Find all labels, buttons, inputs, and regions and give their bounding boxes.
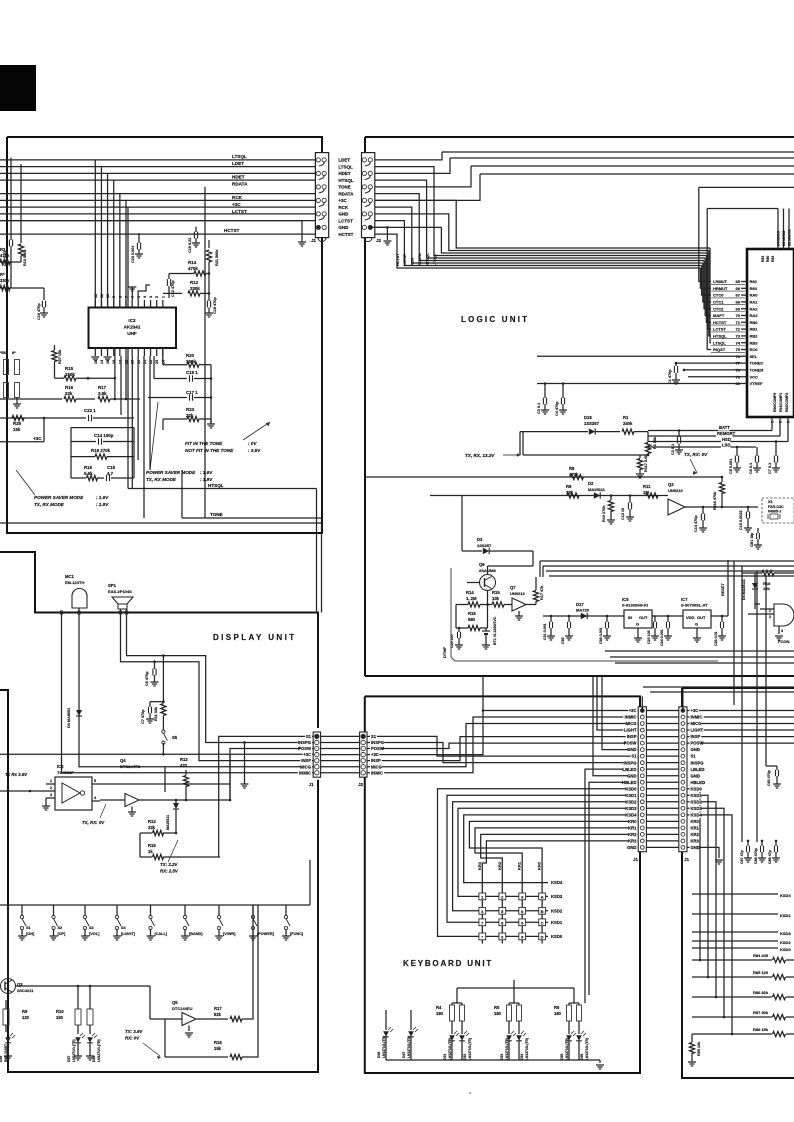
svg-text:DTC144TU: DTC144TU <box>120 764 140 769</box>
svg-text:GND: GND <box>338 212 349 217</box>
capacitor C21 0.001 <box>550 616 552 622</box>
svg-text:73: 73 <box>736 334 741 339</box>
svg-text:64 MICG: 64 MICG <box>777 231 781 246</box>
leader line note inner <box>150 402 158 470</box>
svg-text:INSP: INSP <box>627 734 637 739</box>
wire J2-MICG to J1 <box>367 724 638 767</box>
svg-text:GND: GND <box>627 773 636 778</box>
svg-text:LOGIC UNIT: LOGIC UNIT <box>461 315 529 324</box>
svg-text:GND: GND <box>691 845 700 850</box>
wire HTSQL run <box>127 207 129 488</box>
svg-text:7: 7 <box>125 296 129 298</box>
svg-text:3.9k: 3.9k <box>98 391 107 396</box>
svg-text:LTSQL: LTSQL <box>713 340 726 345</box>
svg-text:RB1: RB1 <box>750 327 759 332</box>
wire S5 to +3C row <box>162 743 164 754</box>
keyboard unit border box <box>365 696 640 1073</box>
ground LED rail <box>599 1060 601 1063</box>
svg-text:1: 1 <box>50 779 52 783</box>
svg-text:KR1: KR1 <box>628 825 637 830</box>
svg-text:KSD1: KSD1 <box>780 913 791 918</box>
svg-text:*56k: *56k <box>0 351 9 355</box>
svg-text:180: 180 <box>436 1011 444 1016</box>
resistor network boxes left <box>4 360 9 375</box>
svg-text:2SC4211: 2SC4211 <box>17 988 34 993</box>
svg-text:R83: R83 <box>771 256 775 262</box>
wire MICG texture stub <box>164 767 166 792</box>
svg-text:15k: 15k <box>214 1046 222 1051</box>
horizontal signal wires entering from left edge <box>0 159 315 161</box>
svg-text:RB2: RB2 <box>750 334 759 339</box>
wire bundle J2 to CPU <box>375 234 701 268</box>
wire +3C row long <box>0 753 313 755</box>
capacitor C5 0.001 <box>736 447 738 456</box>
svg-text:R11 33k: R11 33k <box>154 706 158 721</box>
wire +3C pin stub right <box>682 688 684 711</box>
svg-text:5.6k: 5.6k <box>84 471 93 476</box>
capacitor C92 <box>568 616 570 622</box>
svg-text:HBLED: HBLED <box>691 780 705 785</box>
IC2 bottom pin numbers <box>94 348 96 356</box>
capacitor C26 0.01 <box>721 616 723 622</box>
svg-text:S5: S5 <box>172 735 178 740</box>
svg-text:LIGHT: LIGHT <box>624 728 637 733</box>
svg-text:R19: R19 <box>84 465 93 470</box>
svg-text:LIGHT: LIGHT <box>691 728 704 733</box>
svg-text:330k: 330k <box>190 286 200 291</box>
svg-text:1: 1 <box>161 296 165 298</box>
svg-text:LTSQL: LTSQL <box>232 154 247 159</box>
capacitor C93 470p right <box>776 766 778 770</box>
svg-text:RB0: RB0 <box>750 320 759 325</box>
svg-text:+3C: +3C <box>33 436 42 441</box>
capacitor C7 470p display <box>150 701 163 703</box>
svg-text:C89 47p: C89 47p <box>768 849 772 864</box>
wire inner bus corner <box>699 186 794 188</box>
svg-text:RB3: RB3 <box>750 340 759 345</box>
svg-text:17: 17 <box>118 360 122 364</box>
svg-text:TONER: TONER <box>750 368 764 373</box>
svg-text:20: 20 <box>137 360 141 364</box>
capacitors C87 C88 C89 <box>747 841 749 846</box>
svg-text:70: 70 <box>736 313 741 318</box>
wire regulator row <box>543 615 683 617</box>
svg-text:KSD0: KSD0 <box>625 786 637 791</box>
svg-text:+3C: +3C <box>232 202 241 207</box>
wire R8 row <box>365 476 722 478</box>
svg-text:[V/WR]: [V/WR] <box>223 932 236 936</box>
svg-text:LDET: LDET <box>232 161 244 166</box>
svg-text:LN1371G-(TR): LN1371G-(TR) <box>407 1036 411 1058</box>
svg-text:D53: D53 <box>500 1054 504 1060</box>
wire GND2 feed <box>593 676 638 776</box>
svg-text:RCK: RCK <box>411 258 415 266</box>
svg-text:11: 11 <box>100 294 104 298</box>
svg-text:HTSQL: HTSQL <box>425 252 429 266</box>
svg-text:S2: S2 <box>58 926 63 930</box>
resistor R10 270k <box>610 496 612 501</box>
wire TONER row <box>684 369 747 371</box>
wire 13.2V row <box>523 454 648 456</box>
wire BATT <box>648 430 772 432</box>
black registration block top-left <box>0 65 36 111</box>
svg-text:SP1: SP1 <box>108 583 117 588</box>
capacitor C11 0.22 <box>10 158 12 240</box>
svg-text:INSP: INSP <box>371 758 381 763</box>
resistor R2 56k <box>647 432 649 442</box>
svg-text:KR3: KR3 <box>628 839 637 844</box>
key switch 0 <box>499 933 506 940</box>
capacitor C20 100 <box>458 628 460 632</box>
wire mid long lines to right units <box>540 560 794 562</box>
svg-text:C4 470p: C4 470p <box>555 401 559 416</box>
ground under CB1 <box>754 544 762 546</box>
LED D53 <box>508 1021 510 1034</box>
resistor R11 33k display <box>161 704 166 716</box>
svg-text:470k: 470k <box>0 253 10 258</box>
display unit border box <box>0 552 318 728</box>
svg-text:: 1.8V: : 1.8V <box>200 477 213 482</box>
LED D51 <box>451 1021 453 1034</box>
svg-text:: 0V: : 0V <box>248 441 257 446</box>
svg-text:: 3.5V: : 3.5V <box>248 448 261 453</box>
key switch 6 <box>519 907 526 914</box>
svg-text:TX, RX: 0V: TX, RX: 0V <box>684 452 708 457</box>
svg-text:R9: R9 <box>566 484 572 489</box>
svg-text:1: 1 <box>769 609 771 613</box>
wire LED feeds <box>456 988 458 995</box>
capacitor C10 470p <box>43 288 45 300</box>
svg-text:TONE: TONE <box>210 512 223 517</box>
capacitor C4 470p <box>562 384 564 399</box>
svg-text:MA25111: MA25111 <box>588 487 606 492</box>
dot artifact <box>469 1092 471 1094</box>
svg-text:G: G <box>695 622 698 627</box>
svg-text:INMIC: INMIC <box>299 770 311 775</box>
svg-text:UHF: UHF <box>127 331 137 336</box>
svg-text:INSPG: INSPG <box>623 760 636 765</box>
key switch 4 <box>479 907 486 914</box>
svg-text:R12: R12 <box>180 757 188 762</box>
svg-text:J1: J1 <box>309 782 315 787</box>
wire pin16 junction <box>114 348 116 399</box>
svg-text:+3C: +3C <box>371 752 379 757</box>
svg-text:LN1371G-(TR): LN1371G-(TR) <box>565 1038 569 1060</box>
svg-text:S3: S3 <box>89 926 94 930</box>
wire GND riser <box>602 676 638 750</box>
svg-text:R16: R16 <box>65 385 74 390</box>
wire right chain vertical <box>210 365 212 424</box>
svg-text:Q5: Q5 <box>172 1000 178 1005</box>
wire J2-INSP to J1 <box>367 737 638 761</box>
wire R9 row <box>430 495 668 497</box>
wire Q3 collector drop <box>149 986 151 1019</box>
svg-text:D17: D17 <box>576 602 584 607</box>
svg-text:C15 0.0022: C15 0.0022 <box>739 510 743 530</box>
ground under D56 <box>4 1055 12 1057</box>
wire IC7 out <box>711 615 728 617</box>
svg-text:9: 9 <box>112 296 116 298</box>
svg-text:[ON]: [ON] <box>26 932 35 936</box>
ground under C93 <box>603 635 611 637</box>
svg-text:S1: S1 <box>631 754 637 759</box>
svg-text:R86 82k: R86 82k <box>753 990 769 995</box>
capacitor C6 0.1 <box>756 447 758 456</box>
AND gate FCON <box>774 604 794 626</box>
wire INSPG ground stub <box>243 741 246 744</box>
capacitor C15 0.0022 <box>747 507 749 512</box>
svg-text:R13: R13 <box>148 819 156 824</box>
svg-text:LCTST: LCTST <box>338 218 353 223</box>
svg-text:FCON: FCON <box>778 639 789 644</box>
svg-text:KSD3: KSD3 <box>780 931 791 936</box>
ground under C7 display <box>146 718 154 720</box>
svg-text:X1: X1 <box>768 500 773 504</box>
svg-text:62 MAOS: 62 MAOS <box>788 229 792 246</box>
svg-text:S1: S1 <box>306 734 312 739</box>
CPU top pins 62-64 <box>777 209 779 250</box>
svg-text:D4 MA25111: D4 MA25111 <box>742 579 746 600</box>
svg-text:LTSQL: LTSQL <box>433 253 437 266</box>
svg-text:KSD1: KSD1 <box>691 793 703 798</box>
svg-text:INSPG: INSPG <box>371 740 384 745</box>
svg-text:S1: S1 <box>26 926 31 930</box>
svg-text:R14: R14 <box>188 260 197 265</box>
svg-text:J1: J1 <box>684 857 690 862</box>
key switch # <box>519 933 526 940</box>
ground under C13 <box>626 516 634 518</box>
svg-text:C92: C92 <box>561 637 565 644</box>
switch [FUNC] <box>285 905 287 916</box>
svg-text:R1: R1 <box>623 415 629 420</box>
svg-text:IC2: IC2 <box>128 318 136 323</box>
svg-text:IN: IN <box>628 615 632 620</box>
ground under D58 <box>86 1055 94 1057</box>
svg-text:74: 74 <box>736 340 741 345</box>
svg-text:1: 1 <box>771 421 775 423</box>
svg-text:KSD2: KSD2 <box>780 940 791 945</box>
svg-text:RCK: RCK <box>232 195 243 200</box>
svg-text:D55: D55 <box>560 1054 564 1060</box>
svg-text:KR3: KR3 <box>691 839 700 844</box>
svg-text:R8: R8 <box>569 466 575 471</box>
ground under chain <box>210 419 212 424</box>
svg-text:C22 1: C22 1 <box>84 408 96 413</box>
LED D56 <box>578 1021 580 1034</box>
svg-text:2: 2 <box>779 421 783 423</box>
svg-text:C88 470p: C88 470p <box>754 847 758 864</box>
svg-text:D54: D54 <box>520 1054 524 1060</box>
ground below J2 <box>372 227 387 240</box>
connector J1 display <box>313 732 320 777</box>
KSD labels <box>550 880 562 885</box>
svg-text:D3: D3 <box>477 537 483 542</box>
svg-text:1SS357: 1SS357 <box>477 543 492 548</box>
resistor R17 47k <box>535 584 537 590</box>
svg-text:180: 180 <box>494 1011 502 1016</box>
svg-text:580: 580 <box>468 617 476 622</box>
keyboard J1 labels overlay <box>628 708 637 713</box>
svg-text:C19 0.22: C19 0.22 <box>188 238 192 253</box>
svg-text:LN1371G-(TR): LN1371G-(TR) <box>505 1038 509 1060</box>
svg-text:R5: R5 <box>494 1005 500 1010</box>
connector J1 <box>315 153 328 238</box>
svg-text:C13 10: C13 10 <box>621 508 625 520</box>
svg-text:BATT: BATT <box>719 425 730 430</box>
ground under C20 <box>455 644 463 646</box>
svg-text:C21 0.001: C21 0.001 <box>543 623 547 640</box>
svg-text:HTSQL: HTSQL <box>338 178 354 183</box>
svg-text:LTSQL: LTSQL <box>338 164 353 169</box>
key switch 8 <box>499 919 506 926</box>
wire R14/R12 junction <box>208 274 210 302</box>
switch S4 <box>116 905 118 916</box>
ground under Q7 <box>518 611 520 616</box>
svg-text:2: 2 <box>50 786 52 790</box>
svg-text:C6 470p: C6 470p <box>145 671 149 686</box>
svg-text:KSD4: KSD4 <box>780 893 791 898</box>
svg-text:5: 5 <box>94 779 96 783</box>
svg-text:MA25111: MA25111 <box>166 815 170 830</box>
svg-text:MICG: MICG <box>626 721 637 726</box>
svg-text:POWER SAVER MODE: POWER SAVER MODE <box>146 470 196 475</box>
svg-text:12: 12 <box>94 294 98 298</box>
svg-text:D: D <box>541 934 544 939</box>
svg-text:HCTST: HCTST <box>224 228 240 233</box>
svg-text:OUT: OUT <box>697 615 706 620</box>
svg-text:2: 2 <box>155 296 159 298</box>
svg-text:R29: R29 <box>13 421 22 426</box>
svg-text:R16: R16 <box>214 1040 222 1045</box>
diode D4 MA25111 right <box>752 583 758 589</box>
wire J2-POSW to J1 <box>367 743 638 748</box>
jumper IC2 pin4-pin5 <box>138 285 150 300</box>
svg-text:04905-J: 04905-J <box>768 510 781 514</box>
switch [V/WR] <box>218 905 220 916</box>
svg-text:LCTST: LCTST <box>232 209 247 214</box>
wire LIGHT riser <box>597 676 638 730</box>
svg-text:R17: R17 <box>98 385 107 390</box>
wire IC2 input <box>0 790 46 792</box>
svg-text:BT1 VL1220/1VC: BT1 VL1220/1VC <box>493 616 497 645</box>
tone unit border box <box>7 137 322 533</box>
wire R13 junction <box>175 818 177 833</box>
wire right mid rows <box>692 893 778 895</box>
DTMF inner box <box>451 568 718 661</box>
wire VCC row <box>688 376 747 378</box>
ground under C18 <box>205 312 213 314</box>
svg-text:[CALL]: [CALL] <box>155 932 168 936</box>
svg-text:150: 150 <box>56 1015 64 1020</box>
svg-text:Q4: Q4 <box>120 758 126 763</box>
svg-text:R12: R12 <box>190 280 199 285</box>
svg-text:C12 470p: C12 470p <box>171 280 175 297</box>
svg-text:C5 0.001: C5 0.001 <box>729 459 733 474</box>
capacitor C93 0.001 <box>606 616 608 622</box>
svg-text:KR0: KR0 <box>537 861 542 870</box>
svg-text:R17: R17 <box>214 1006 222 1011</box>
svg-text:KR3: KR3 <box>477 861 482 870</box>
svg-text:IC5: IC5 <box>622 597 629 602</box>
ground under C14 logic <box>699 527 707 529</box>
svg-text:S-80730SL-AT: S-80730SL-AT <box>681 603 708 608</box>
svg-text:67: 67 <box>736 293 741 298</box>
svg-text:C15: C15 <box>107 465 116 470</box>
IC2 top pin numbers <box>94 300 96 308</box>
wire left components <box>0 261 21 263</box>
svg-text:EAS-2P104S: EAS-2P104S <box>108 589 132 594</box>
svg-text:TC4568F: TC4568F <box>57 770 74 775</box>
ground under C23 103 <box>651 635 659 637</box>
switch S1 <box>21 905 23 916</box>
ground under C92 <box>565 635 573 637</box>
svg-text:GND: GND <box>338 225 349 230</box>
svg-text:REMORT: REMORT <box>717 431 736 436</box>
svg-text:DTC144EU: DTC144EU <box>172 1006 193 1011</box>
capacitor C24 0.001 <box>667 616 669 622</box>
ground under C4 <box>559 409 567 411</box>
svg-text:J2: J2 <box>358 782 364 787</box>
svg-text:POSW: POSW <box>298 746 311 751</box>
svg-text:OUT: OUT <box>639 615 648 620</box>
svg-text:R11: R11 <box>643 484 651 489</box>
svg-text:23: 23 <box>155 360 159 364</box>
svg-text:D18: D18 <box>584 415 592 420</box>
wire SEL row <box>537 355 747 357</box>
display J1 labels <box>305 734 312 739</box>
svg-text:C17 1: C17 1 <box>186 390 198 395</box>
svg-text:+3C: +3C <box>338 198 347 203</box>
svg-text:10k: 10k <box>492 596 500 601</box>
svg-text:3: 3 <box>50 793 52 797</box>
LED D57 LN1371G-(TR) <box>75 1037 81 1043</box>
svg-text:MICG: MICG <box>371 764 382 769</box>
svg-text:C14 100p: C14 100p <box>94 433 114 438</box>
ground IC2 pin 13 <box>91 356 99 358</box>
svg-text:KR0: KR0 <box>628 819 637 824</box>
ground above IC2 pin 6 <box>131 292 133 300</box>
ground under C15 <box>744 527 752 529</box>
wire MICG bundle <box>79 613 313 767</box>
wire loop block <box>71 427 134 429</box>
wire staircase into CPU pins <box>699 187 711 281</box>
wire HTSQL drop to display <box>316 489 318 613</box>
svg-text:RC0: RC0 <box>750 347 759 352</box>
svg-text:VTREF: VTREF <box>750 381 764 386</box>
svg-text:CTC1: CTC1 <box>713 300 724 305</box>
svg-text:R80: R80 <box>766 256 770 262</box>
svg-text:G: G <box>636 622 639 627</box>
ground under C6 display <box>151 681 159 683</box>
svg-text:C2 0.1: C2 0.1 <box>671 444 675 455</box>
wire pin17-19 drops <box>120 356 122 415</box>
op-amp IC2 AK2341 UHF <box>89 308 177 349</box>
svg-text:D56: D56 <box>580 1054 584 1060</box>
capacitor C23 103 <box>654 616 656 622</box>
svg-text:HSD: HSD <box>722 437 731 442</box>
ground under gate <box>775 635 783 637</box>
svg-text:RX: 0V: RX: 0V <box>125 1036 140 1041</box>
wire VTREF row <box>537 383 747 385</box>
svg-text:16: 16 <box>112 360 116 364</box>
svg-text:LN1371G-(TR): LN1371G-(TR) <box>382 1036 386 1058</box>
ground under C26 <box>718 635 726 637</box>
wire LED bottom rail <box>386 1059 600 1061</box>
wire J2-INMIC to J1 <box>367 717 638 773</box>
svg-text:R6: R6 <box>554 1005 560 1010</box>
svg-text:D51: D51 <box>443 1054 447 1060</box>
svg-text:TX: 3.2V: TX: 3.2V <box>160 862 178 867</box>
